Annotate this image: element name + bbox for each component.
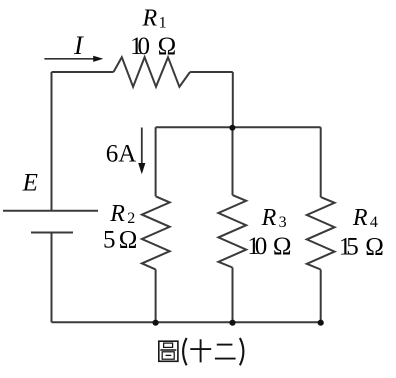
- node R3 bottom: [229, 320, 235, 326]
- resistor R1: [114, 57, 191, 87]
- wire top from E to R1: [52, 71, 114, 73]
- svg-text:Ω: Ω: [119, 226, 138, 253]
- caption glyph two: [215, 345, 236, 359]
- battery E long plate: [3, 210, 98, 212]
- caption glyph ten: [190, 339, 211, 362]
- wire left vertical lower: [51, 233, 53, 323]
- wire R4 branch bottom: [320, 270, 322, 323]
- resistor R2: [142, 196, 170, 269]
- wire R4 branch top: [320, 127, 322, 197]
- node R4 bottom: [318, 320, 324, 326]
- node junction top: [229, 125, 235, 131]
- svg-text:Ω: Ω: [273, 233, 292, 260]
- svg-text:10: 10: [130, 33, 150, 60]
- wire R2 branch top: [155, 127, 157, 196]
- wire bottom bus: [52, 321, 321, 323]
- svg-text:10: 10: [247, 233, 267, 260]
- svg-text:6A: 6A: [106, 141, 137, 168]
- node R2 bottom: [153, 320, 159, 326]
- caption close paren: [240, 338, 244, 365]
- wire R2 branch bottom: [155, 269, 157, 322]
- resistor R4: [307, 197, 335, 269]
- svg-text:Ω: Ω: [158, 33, 177, 60]
- current arrow 6A: [138, 128, 145, 175]
- svg-text:I: I: [73, 31, 84, 60]
- svg-text:5: 5: [103, 226, 116, 253]
- svg-text:E: E: [22, 170, 38, 197]
- wire from R1 to right corner: [190, 71, 233, 73]
- wire left vertical upper (E top): [51, 72, 53, 211]
- wire middle horizontal bus: [156, 126, 321, 128]
- wire R3 branch top: [232, 127, 234, 195]
- svg-text:15: 15: [339, 234, 359, 261]
- battery E short plate: [31, 232, 73, 234]
- resistor R3: [218, 195, 246, 267]
- caption glyph tu (figure): [159, 341, 178, 361]
- svg-text:Ω: Ω: [365, 234, 384, 261]
- caption open paren: [183, 338, 187, 365]
- wire right drop to node: [232, 72, 234, 127]
- wire R3 branch bottom: [232, 268, 234, 323]
- current arrow I: [44, 56, 103, 62]
